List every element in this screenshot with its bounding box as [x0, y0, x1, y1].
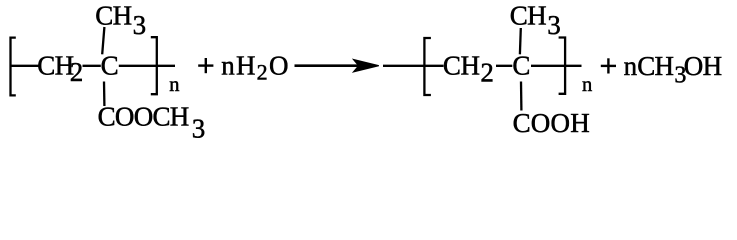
svg-text:C: C [512, 50, 530, 80]
wire: bond into right structure, crossing bracket [383, 65, 444, 67]
svg-text:C: C [101, 50, 119, 80]
svg-text:n: n [624, 51, 638, 81]
wire: bond C up to CH3 (right) [519, 28, 522, 54]
svg-text:2: 2 [70, 57, 84, 87]
svg-text:CH: CH [443, 50, 480, 80]
wire: bond C down to COOH [520, 82, 523, 111]
svg-text:2: 2 [480, 57, 494, 87]
svg-text:3: 3 [133, 10, 147, 40]
svg-text:3: 3 [547, 10, 561, 40]
left repeat-unit opening bracket [11, 38, 16, 96]
wire: bond CH2 to C (right) [496, 65, 512, 67]
svg-text:OH: OH [684, 51, 722, 81]
svg-text:n: n [582, 74, 592, 96]
svg-text:3: 3 [192, 114, 206, 144]
svg-text:CH: CH [37, 50, 73, 80]
right repeat-unit closing bracket [559, 38, 566, 94]
right repeat-unit opening bracket [424, 38, 431, 95]
wire: bond bracket to CH2 [11, 65, 39, 67]
left repeat-unit closing bracket [151, 37, 157, 94]
svg-text:O: O [269, 51, 289, 81]
svg-text:CH: CH [510, 1, 546, 31]
reaction arrow [295, 64, 359, 67]
wire: bond C up to CH3 [102, 27, 104, 54]
wire: bond C to right, crossing bracket (right structure) [531, 65, 582, 67]
svg-text:COOCH: COOCH [98, 102, 189, 132]
svg-text:CH: CH [95, 1, 131, 31]
svg-text:COOH: COOH [513, 108, 590, 138]
svg-text:2: 2 [257, 60, 268, 85]
svg-text:nH: nH [221, 51, 256, 81]
wire: bond CH2 to C [83, 65, 101, 67]
svg-text:n: n [169, 74, 179, 96]
wire: bond C down to COOCH3 [103, 82, 106, 107]
plus sign (left) [198, 58, 213, 73]
plus sign (right) [601, 58, 616, 73]
svg-text:CH: CH [637, 51, 673, 81]
wire: bond C to right, crossing bracket [119, 65, 175, 67]
